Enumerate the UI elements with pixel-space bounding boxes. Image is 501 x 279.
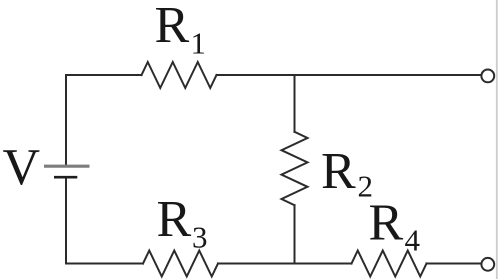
wire bottom-right (R4 to right terminal) bbox=[427, 263, 482, 265]
svg-text:R: R bbox=[155, 0, 190, 54]
wire top-middle (R1 to node at R2 branch and on to right terminal) bbox=[217, 74, 482, 76]
svg-text:R: R bbox=[369, 195, 404, 252]
svg-text:V: V bbox=[3, 139, 41, 196]
battery V positive plate (long) bbox=[44, 165, 90, 168]
wire R2 branch upper (top node down to R2) bbox=[294, 75, 296, 132]
resistor R1 bbox=[142, 62, 217, 88]
page right edge rule bbox=[496, 0, 498, 279]
wire R2 branch lower (R2 down to bottom node) bbox=[294, 205, 296, 263]
resistor R2 bbox=[282, 132, 308, 205]
terminal bottom-right bbox=[481, 258, 494, 271]
svg-text:1: 1 bbox=[191, 26, 207, 61]
battery V negative plate (short) bbox=[54, 176, 77, 179]
wire top-left horizontal (battery top to R1) bbox=[66, 74, 142, 76]
svg-text:R: R bbox=[157, 191, 192, 248]
wire left vertical upper (top-left corner down to battery) bbox=[65, 75, 67, 165]
svg-text:3: 3 bbox=[192, 220, 208, 255]
resistor R3 bbox=[143, 251, 218, 277]
svg-text:R: R bbox=[321, 143, 356, 200]
svg-text:4: 4 bbox=[405, 223, 421, 258]
wire bottom-middle (R3 to node, node to R4) bbox=[218, 263, 352, 265]
wire bottom-left (corner to R3) bbox=[66, 263, 143, 265]
resistor R4 bbox=[352, 251, 427, 277]
wire left vertical lower (battery to bottom-left corner) bbox=[65, 178, 67, 264]
terminal top-right bbox=[481, 70, 494, 83]
